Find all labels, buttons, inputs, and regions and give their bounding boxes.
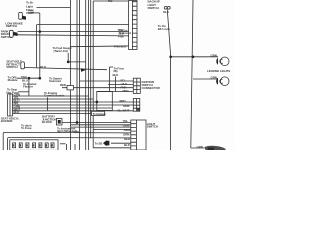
svg-text:SWITCH: SWITCH	[6, 65, 17, 69]
svg-text:RED: RED	[123, 89, 130, 93]
svg-text:RED: RED	[124, 137, 131, 141]
svg-text:To SB: To SB	[95, 141, 104, 145]
svg-text:GRN: GRN	[123, 132, 129, 136]
svg-text:PNK BLK: PNK BLK	[114, 45, 127, 49]
svg-text:GRN: GRN	[197, 145, 203, 149]
svg-text:BLOCK: BLOCK	[42, 120, 53, 124]
svg-text:(Tank Unit): (Tank Unit)	[54, 49, 68, 53]
svg-text:BLU: BLU	[163, 10, 169, 14]
svg-text:BUZZER: BUZZER	[1, 119, 13, 123]
svg-text:BLK: BLK	[124, 143, 131, 147]
svg-text:BLK: BLK	[113, 73, 120, 77]
svg-text:LICENSE LIGHTS: LICENSE LIGHTS	[207, 69, 230, 73]
svg-text:Module: Module	[8, 78, 18, 82]
svg-text:SWITCH: SWITCH	[147, 125, 158, 129]
svg-text:Flasher: Flasher	[23, 85, 34, 89]
svg-text:Solenoid: Solenoid	[119, 31, 131, 35]
svg-text:PNK: PNK	[118, 35, 125, 39]
svg-text:5W: 5W	[108, 0, 113, 3]
svg-text:YEL: YEL	[123, 119, 129, 123]
svg-text:To Fuse: To Fuse	[21, 126, 32, 130]
svg-text:SWITCH: SWITCH	[6, 24, 17, 28]
svg-text:CONNECTOR: CONNECTOR	[142, 86, 161, 90]
svg-text:BLK: BLK	[40, 65, 47, 69]
svg-text:ORN: ORN	[123, 124, 129, 128]
svg-text:RED: RED	[60, 83, 67, 87]
svg-text:To Battery: To Battery	[93, 112, 107, 116]
svg-text:RED: RED	[120, 99, 127, 103]
svg-text:GRN: GRN	[211, 53, 217, 57]
svg-text:BLK: BLK	[14, 110, 21, 114]
svg-text:BRN: BRN	[74, 130, 80, 134]
svg-text:SWITCH: SWITCH	[148, 6, 159, 10]
svg-text:ORN: ORN	[123, 104, 129, 108]
